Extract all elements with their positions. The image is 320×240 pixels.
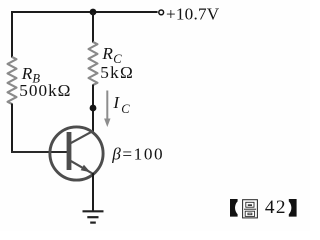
svg-text:500kΩ: 500kΩ (19, 81, 71, 100)
node: junction dot at top of RC branch (90, 9, 97, 16)
svg-text:42: 42 (265, 197, 287, 218)
node: collector junction dot (90, 105, 97, 112)
wire: horizontal base lead into transistor (11, 151, 67, 153)
terminal: open-circle supply terminal (159, 10, 164, 15)
svg-text:C: C (121, 102, 130, 116)
wire: left vertical below RB down to base corner (11, 104, 13, 154)
svg-text:5kΩ: 5kΩ (100, 63, 134, 82)
transistor Q1: base bar (67, 132, 72, 170)
caption: left lenticular bracket (230, 199, 238, 217)
wire: left vertical, top segment above RB (11, 11, 13, 58)
svg-text:I: I (112, 93, 120, 112)
transistor Q1: emitter stroke with arrowhead (70, 160, 93, 173)
svg-text:R: R (101, 44, 113, 63)
resistor RC zigzag (89, 42, 98, 85)
svg-text:+10.7V: +10.7V (166, 4, 220, 23)
wire: top rail from left corner to supply terminal (12, 11, 158, 13)
caption: right lenticular bracket (289, 199, 297, 217)
wire: RC branch top segment from junction to resistor (92, 12, 94, 43)
caption: glyph for Chinese character 'tu' (figure) (243, 200, 258, 218)
resistor RB zigzag (8, 57, 17, 104)
transistor Q1: NPN circle (50, 127, 103, 180)
svg-text:β=100: β=100 (111, 144, 164, 163)
wire: emitter down to ground (92, 173, 94, 211)
wire: RC branch lower segment down to collector (92, 85, 94, 132)
svg-text:R: R (21, 64, 33, 83)
transistor Q1: collector stroke (70, 131, 94, 144)
current arrow IC (gray, downward) (104, 91, 110, 128)
ground symbol (83, 211, 104, 222)
